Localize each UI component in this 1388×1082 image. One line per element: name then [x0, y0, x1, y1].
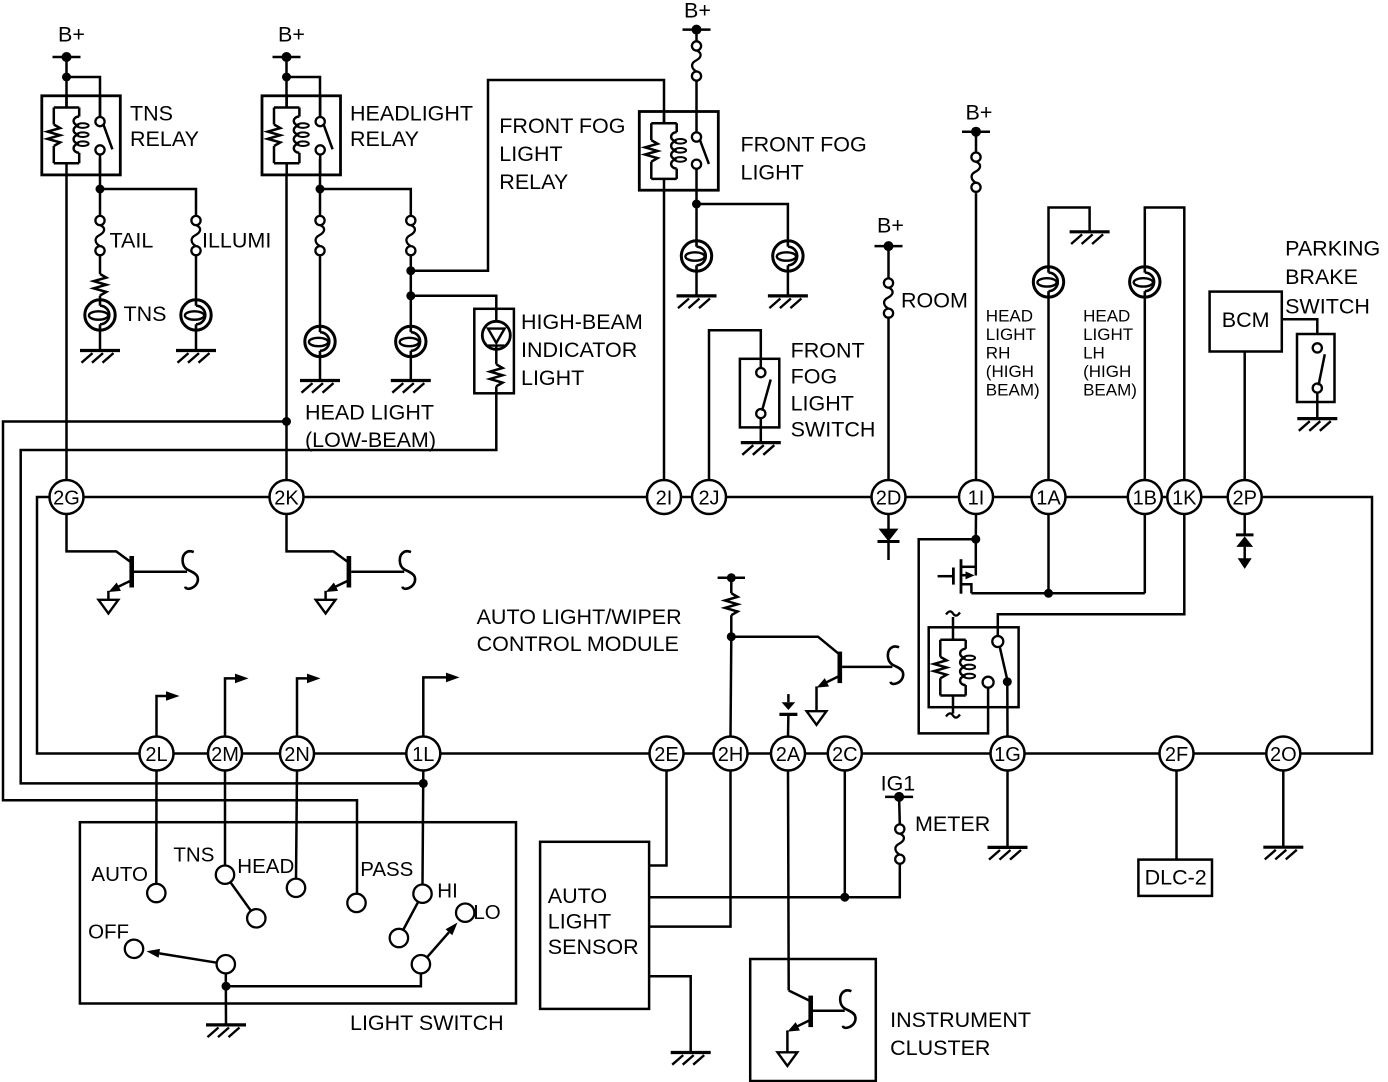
- wire high-beam to indicator light: [411, 296, 497, 309]
- wire low-beam fuse to lamp: [319, 255, 322, 326]
- headlight relay resistor: [268, 108, 300, 164]
- B+ terminal (TNS relay): [53, 22, 85, 62]
- Q2 squiggle: [400, 551, 415, 589]
- svg-text:BEAM): BEAM): [1083, 380, 1137, 399]
- svg-text:METER: METER: [915, 812, 990, 836]
- wire fog lamp LH to ground: [695, 271, 698, 296]
- front fog light relay box: [639, 112, 718, 191]
- wire branch to TNS relay switch: [67, 77, 101, 117]
- wire parking brake switch to ground: [1316, 393, 1319, 419]
- ground low-beam LH: [300, 381, 340, 393]
- dimmer arrow to LO: [427, 923, 458, 958]
- label HEADLIGHT RELAY: [350, 101, 473, 151]
- svg-text:TNS: TNS: [130, 101, 173, 125]
- B+ terminal (ROOM): [875, 213, 904, 251]
- svg-text:INDICATOR: INDICATOR: [521, 338, 637, 362]
- wire B+ to high fuse: [975, 132, 978, 153]
- wire sensor to ground: [649, 976, 691, 1052]
- wire pivot to ground: [225, 973, 228, 1025]
- svg-text:1K: 1K: [1172, 487, 1197, 509]
- fuse METER: [895, 824, 904, 863]
- node 1L junction: [419, 779, 428, 788]
- Q5 squiggle: [840, 990, 855, 1028]
- svg-text:LIGHT: LIGHT: [1083, 325, 1133, 344]
- ground ILLUMI lamp: [176, 351, 216, 363]
- wire 2M to TNS contact: [224, 771, 227, 866]
- TNS relay coil output wire: [65, 163, 68, 175]
- label AUTO LIGHT SENSOR: [548, 884, 639, 959]
- resistor TNS lamp: [94, 274, 107, 296]
- lamp head light low-beam LH: [305, 326, 335, 356]
- front fog relay coil out: [663, 179, 666, 190]
- headlight relay switch wire out: [319, 155, 322, 175]
- connector 2P: [1228, 480, 1262, 514]
- svg-text:2G: 2G: [53, 487, 80, 509]
- svg-text:1L: 1L: [412, 744, 434, 766]
- BCM box: [1210, 292, 1282, 352]
- lamp front fog RH: [773, 241, 803, 271]
- Q1 base lead: [134, 570, 187, 573]
- TNS relay coil: [74, 108, 89, 164]
- svg-text:AUTO: AUTO: [548, 884, 607, 908]
- svg-text:BEAM): BEAM): [986, 380, 1040, 399]
- front fog light switch box: [740, 359, 779, 428]
- fuse headlight high: [971, 153, 980, 192]
- headlight relay box: [262, 96, 341, 175]
- wire 1B stub: [1144, 514, 1147, 593]
- TNS relay switch wire out: [99, 155, 102, 175]
- svg-text:SWITCH: SWITCH: [1285, 294, 1370, 318]
- transistor Q3: [807, 652, 843, 725]
- svg-text:2H: 2H: [718, 744, 744, 766]
- svg-text:TAIL: TAIL: [110, 229, 154, 253]
- ground 1G: [988, 847, 1028, 859]
- lamp front fog LH: [681, 241, 711, 271]
- front fog relay coil: [671, 123, 686, 179]
- headlight relay switch blade: [324, 125, 333, 149]
- svg-text:2C: 2C: [832, 744, 858, 766]
- connector 2M: [208, 737, 242, 771]
- node TNS relay branch: [62, 73, 71, 82]
- wire 2D diode: [887, 514, 890, 530]
- headlight relay coil: [294, 108, 309, 164]
- svg-text:PASS: PASS: [360, 858, 413, 881]
- K1 coil top tilde: [946, 611, 960, 615]
- label INSTRUMENT CLUSTER: [890, 1008, 1031, 1060]
- fuse ROOM: [884, 278, 893, 317]
- Q3 squiggle: [888, 646, 903, 684]
- node low-beam junction: [282, 417, 291, 426]
- wire R2 to node: [730, 615, 733, 637]
- svg-text:OFF: OFF: [88, 921, 129, 944]
- svg-text:SWITCH: SWITCH: [791, 417, 876, 441]
- wire TNS relay coil to 2G: [65, 175, 68, 480]
- svg-text:2L: 2L: [145, 744, 167, 766]
- B+ terminal (headlight relay): [273, 22, 305, 62]
- svg-text:AUTO: AUTO: [91, 863, 148, 886]
- svg-text:B+: B+: [684, 0, 711, 22]
- wire ILLUMI lamp to ground: [195, 330, 198, 350]
- connector 2D: [872, 480, 906, 514]
- wire sensor to 2H: [649, 771, 730, 927]
- wire B+ to fog fuse: [695, 30, 698, 42]
- connector 2C: [828, 737, 862, 771]
- wire resistor to TNS lamp: [99, 296, 102, 300]
- diode D3 zener: [1236, 535, 1254, 569]
- svg-text:FRONT FOG: FRONT FOG: [741, 132, 867, 156]
- wire sensor to meter fuse: [649, 864, 900, 898]
- svg-text:2A: 2A: [776, 744, 801, 766]
- indicator LED: [482, 321, 510, 349]
- wire ILLUMI fuse to lamp: [195, 255, 198, 299]
- fuse TAIL: [95, 216, 104, 255]
- wire high-beam fuse down: [410, 255, 413, 326]
- wire 2A to cluster: [787, 771, 790, 991]
- svg-text:HIGH-BEAM: HIGH-BEAM: [521, 310, 643, 334]
- svg-text:2M: 2M: [211, 744, 239, 766]
- connector 2G: [50, 480, 84, 514]
- wire 1I to drain node: [975, 514, 978, 539]
- label HEAD LIGHT (LOW-BEAM): [305, 400, 436, 452]
- TNS relay switch blade: [104, 125, 113, 149]
- K1 coil top lead: [952, 617, 955, 640]
- svg-text:2O: 2O: [1270, 744, 1297, 766]
- svg-text:LH: LH: [1083, 344, 1105, 363]
- output arrow 2N: [297, 674, 321, 737]
- pivot contact main: [217, 955, 235, 973]
- wire ROOM fuse to 2D: [887, 316, 890, 480]
- svg-text:B+: B+: [966, 100, 993, 124]
- wire fog relay coil to 2I: [663, 190, 666, 480]
- label HEAD LIGHT LH (HIGH BEAM): [1083, 307, 1137, 400]
- wire 2P diode: [1243, 514, 1246, 535]
- fuse headlight low-beam: [315, 216, 324, 255]
- ground RH high-beam: [1070, 232, 1110, 244]
- wire TNS lamp to ground: [99, 330, 102, 350]
- wire LH lamp to 1K: [1145, 208, 1185, 481]
- svg-text:LO: LO: [473, 901, 500, 924]
- wire pivot link: [226, 973, 421, 986]
- wire K1 common to 1G: [1006, 682, 1009, 737]
- wire 1G to ground: [1006, 771, 1009, 848]
- connector 2J: [692, 480, 726, 514]
- K1 coil bottom tilde: [946, 713, 960, 717]
- svg-text:AUTO LIGHT/WIPER: AUTO LIGHT/WIPER: [477, 605, 682, 629]
- wire node to Q3: [731, 637, 839, 654]
- node headlight fuse branch: [316, 185, 325, 194]
- ground 2O: [1263, 847, 1303, 859]
- svg-text:1B: 1B: [1133, 487, 1157, 509]
- svg-text:HEAD: HEAD: [237, 855, 294, 878]
- transistor Q2: [316, 556, 352, 613]
- connector 1I: [959, 480, 993, 514]
- Q5 base lead: [813, 1010, 845, 1013]
- connector 2F: [1160, 737, 1194, 771]
- svg-text:HEAD: HEAD: [1083, 307, 1130, 326]
- output arrow 2M: [225, 674, 249, 737]
- HI blade: [390, 902, 419, 947]
- wire headlight relay coil to 2K: [285, 175, 288, 480]
- svg-text:LIGHT: LIGHT: [791, 391, 854, 415]
- wire resistor to box edge: [495, 386, 498, 393]
- auto light sensor box: [540, 842, 649, 1009]
- parking brake switch blade: [1319, 354, 1325, 385]
- diode D2: [878, 529, 900, 560]
- high-beam indicator box: [474, 309, 514, 394]
- contact PASS: [347, 894, 365, 912]
- svg-text:2I: 2I: [656, 487, 673, 509]
- svg-text:(LOW-BEAM): (LOW-BEAM): [305, 428, 436, 452]
- label FRONT FOG LIGHT RELAY: [499, 114, 625, 194]
- svg-text:HEAD: HEAD: [986, 307, 1033, 326]
- ground fog switch: [741, 443, 781, 455]
- output arrow 1L: [423, 673, 459, 737]
- fuse headlight high-beam: [406, 216, 415, 255]
- instrument cluster box: [750, 959, 876, 1081]
- wire 1A stub: [1047, 514, 1050, 593]
- DLC-2 box: [1138, 860, 1212, 896]
- wire node to 2H: [729, 637, 732, 737]
- connector 1L: [406, 737, 440, 771]
- svg-text:HEAD LIGHT: HEAD LIGHT: [305, 400, 434, 424]
- svg-text:LIGHT SWITCH: LIGHT SWITCH: [350, 1011, 504, 1035]
- svg-text:1A: 1A: [1036, 487, 1061, 509]
- svg-text:DLC-2: DLC-2: [1145, 865, 1207, 889]
- node TAIL/ILLUMI branch: [96, 185, 105, 194]
- connector 1A: [1032, 480, 1066, 514]
- wire branch to high-beam fuse: [320, 189, 411, 216]
- svg-text:1G: 1G: [994, 744, 1021, 766]
- svg-text:SENSOR: SENSOR: [548, 935, 639, 959]
- svg-text:LIGHT: LIGHT: [521, 366, 584, 390]
- parking brake switch box: [1297, 334, 1335, 402]
- contact LO: [456, 904, 474, 922]
- wire fog fuse to relay switch: [695, 81, 698, 132]
- node 2C junction: [840, 893, 849, 902]
- wire high-beam lamp to ground: [410, 357, 413, 381]
- selector arrow to OFF: [147, 949, 217, 963]
- wire 1L to HI contact: [421, 771, 424, 885]
- svg-text:(HIGH: (HIGH: [1083, 362, 1131, 381]
- wire cluster collector diagonal: [789, 991, 810, 1001]
- svg-text:ILLUMI: ILLUMI: [202, 229, 271, 253]
- relay K1 box: [929, 627, 1019, 707]
- label PARKING BRAKE SWITCH: [1285, 237, 1380, 319]
- wire B+ to headlight relay: [285, 57, 288, 108]
- ground low-beam RH: [391, 381, 431, 393]
- svg-text:2E: 2E: [654, 744, 678, 766]
- lamp TNS: [85, 300, 115, 330]
- front fog relay switch blade: [700, 140, 709, 164]
- svg-text:IG1: IG1: [881, 771, 916, 795]
- connector 1G: [991, 737, 1025, 771]
- IG1 terminal: [881, 771, 916, 802]
- wire into indicator: [495, 309, 498, 322]
- connector 1K: [1167, 480, 1201, 514]
- contact HEAD: [287, 879, 305, 897]
- svg-text:CLUSTER: CLUSTER: [890, 1036, 990, 1060]
- label TNS RELAY: [130, 101, 199, 151]
- node pivot junction: [222, 982, 231, 991]
- lamp head light LH high-beam: [1130, 267, 1160, 297]
- Q3 base lead: [842, 666, 892, 669]
- MOSFET Q4: [938, 539, 976, 594]
- wire BCM to parking brake switch: [1282, 319, 1318, 334]
- wire indicator to 1L: [21, 393, 497, 783]
- wire fog relay switch to lamps: [695, 190, 698, 241]
- diode D1 stub: [787, 694, 790, 702]
- svg-text:HEADLIGHT: HEADLIGHT: [350, 101, 473, 125]
- K1 upper contact: [992, 636, 1003, 647]
- svg-text:(HIGH: (HIGH: [986, 362, 1034, 381]
- svg-text:TNS: TNS: [173, 843, 214, 866]
- svg-text:HI: HI: [437, 880, 458, 903]
- ground parking brake switch: [1297, 419, 1337, 431]
- wire TNS relay switch out: [99, 159, 102, 216]
- svg-text:FRONT: FRONT: [791, 339, 865, 363]
- wire drain node to K1 contact: [919, 539, 988, 733]
- wire B+ to TNS relay: [65, 57, 68, 108]
- auto light/wiper control module box: [37, 497, 1372, 754]
- node fog lamp branch: [692, 200, 701, 209]
- ground sensor: [671, 1053, 711, 1065]
- diode D1: [779, 702, 797, 714]
- pivot contact dimmer: [412, 955, 430, 973]
- Q2 base lead: [351, 570, 404, 573]
- svg-text:B+: B+: [278, 22, 305, 46]
- svg-text:2F: 2F: [1165, 744, 1188, 766]
- light switch box: [80, 822, 516, 1003]
- label HEAD LIGHT RH (HIGH BEAM): [986, 307, 1040, 400]
- internal supply tick: [718, 573, 745, 582]
- front fog relay resistor: [645, 123, 677, 179]
- connector 2I: [647, 480, 681, 514]
- wire fog lamp RH to ground: [787, 271, 790, 296]
- node headlight relay branch: [282, 73, 291, 82]
- resistor indicator: [490, 364, 503, 386]
- contact HI: [413, 885, 431, 903]
- K1 NC contact: [983, 677, 994, 688]
- svg-text:2J: 2J: [698, 487, 719, 509]
- lamp head light RH high-beam: [1033, 267, 1063, 297]
- svg-text:2N: 2N: [284, 744, 310, 766]
- contact OFF: [125, 940, 143, 958]
- TNS blade: [230, 882, 265, 927]
- wire 2N to HEAD contact: [296, 771, 297, 879]
- ground fog lamp RH: [768, 296, 808, 308]
- svg-text:RELAY: RELAY: [130, 127, 199, 151]
- svg-text:FOG: FOG: [791, 365, 838, 389]
- output arrow 2L: [157, 691, 180, 736]
- ground light switch: [206, 1025, 246, 1037]
- wire branch to fog lamp RH: [697, 204, 788, 241]
- connector 1B: [1128, 480, 1162, 514]
- svg-text:LIGHT: LIGHT: [499, 142, 562, 166]
- wire low-beam to PASS: [3, 422, 357, 894]
- TNS relay resistor: [48, 108, 80, 164]
- B+ terminal (front fog light): [683, 0, 711, 35]
- TNS relay switch contacts: [95, 117, 104, 154]
- front fog light switch contacts: [756, 368, 765, 418]
- svg-text:2P: 2P: [1232, 487, 1256, 509]
- wire source to 1A/1B: [971, 592, 1144, 595]
- wire low-beam lamp to ground: [319, 357, 322, 381]
- lamp head light low-beam RH: [396, 326, 426, 356]
- front fog relay switch contacts: [692, 132, 701, 168]
- wire 2G to Q1: [67, 514, 131, 562]
- connector 2L: [140, 737, 174, 771]
- K1 common contact: [1003, 677, 1012, 686]
- wire fog switch to ground: [760, 418, 763, 442]
- TNS relay switch wire in: [99, 96, 102, 117]
- connector 2N: [280, 737, 314, 771]
- wire 2L to AUTO contact: [155, 771, 158, 884]
- svg-text:RELAY: RELAY: [350, 127, 419, 151]
- node Q3 base junction: [727, 632, 736, 641]
- wire 2K to Q2: [287, 514, 348, 562]
- wire TAIL fuse to resistor: [99, 255, 102, 274]
- svg-text:B+: B+: [58, 22, 85, 46]
- headlight relay switch wire in: [319, 96, 322, 117]
- transistor Q1: [99, 556, 135, 613]
- node high-beam to fog relay: [406, 266, 415, 275]
- svg-text:RELAY: RELAY: [499, 170, 568, 194]
- svg-text:FRONT FOG: FRONT FOG: [499, 114, 625, 138]
- connector 2E: [650, 737, 684, 771]
- resistor R2: [725, 593, 738, 615]
- connector 2O: [1266, 737, 1300, 771]
- contact AUTO: [147, 884, 165, 902]
- TNS relay coil input wire: [65, 96, 68, 108]
- wire headlight relay switch out: [319, 159, 322, 216]
- svg-text:RH: RH: [986, 344, 1011, 363]
- svg-text:PARKING: PARKING: [1285, 237, 1380, 261]
- label HIGH-BEAM INDICATOR LIGHT: [521, 310, 643, 390]
- svg-text:CONTROL MODULE: CONTROL MODULE: [477, 632, 679, 656]
- connector 2H: [714, 737, 748, 771]
- K1 resistor: [934, 640, 966, 696]
- wire 1B to LH lamp: [1144, 297, 1147, 480]
- svg-text:BCM: BCM: [1222, 308, 1270, 332]
- wire high-beam to fog relay coil: [411, 80, 664, 271]
- K1 coil bottom lead: [952, 696, 955, 714]
- wire K1 contact to 1K: [998, 514, 1185, 636]
- front fog relay switch out: [695, 169, 698, 190]
- transistor Q5: [778, 996, 814, 1066]
- wire 2C down: [844, 771, 847, 898]
- svg-text:LIGHT: LIGHT: [986, 325, 1036, 344]
- connector 2A: [771, 737, 805, 771]
- wire 2E to sensor: [649, 771, 666, 866]
- svg-text:INSTRUMENT: INSTRUMENT: [890, 1008, 1031, 1032]
- wire supply to R2: [730, 578, 733, 593]
- svg-text:1I: 1I: [968, 487, 985, 509]
- wire B+ to ROOM fuse: [887, 246, 890, 278]
- headlight relay coil input wire: [285, 96, 288, 108]
- svg-text:2D: 2D: [876, 487, 902, 509]
- TNS relay box: [42, 96, 121, 175]
- svg-text:LIGHT: LIGHT: [548, 910, 611, 934]
- wire branch to headlight relay switch: [287, 77, 321, 117]
- label FRONT FOG LIGHT SWITCH: [791, 339, 876, 442]
- wire D1 to 2A: [787, 714, 790, 737]
- front fog relay coil wire in: [663, 112, 666, 124]
- svg-text:BRAKE: BRAKE: [1285, 265, 1358, 289]
- wire BCM to 2P: [1243, 352, 1246, 481]
- wire LED to resistor: [495, 346, 498, 365]
- wire 2J to fog switch: [709, 330, 761, 480]
- wire 1A to RH lamp: [1047, 297, 1050, 480]
